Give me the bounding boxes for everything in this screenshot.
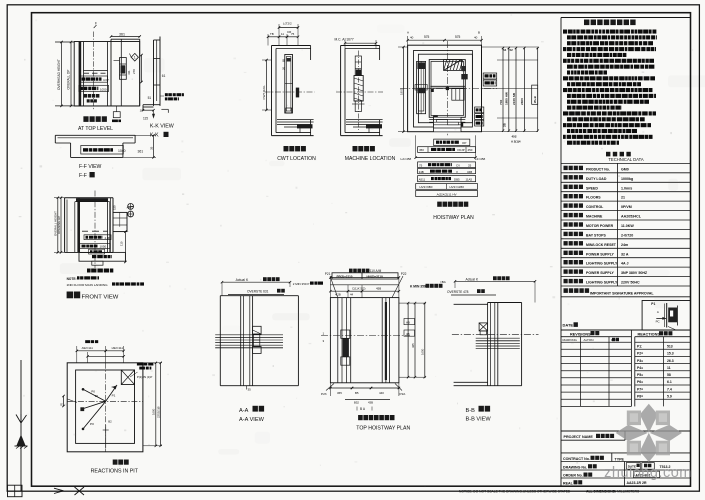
svg-text:0P/VM: 0P/VM: [621, 205, 632, 209]
svg-text:11: 11: [667, 366, 671, 370]
svg-text:TYPE: TYPE: [615, 457, 625, 461]
svg-text:V: V: [456, 170, 458, 174]
svg-text:575: 575: [424, 35, 430, 39]
svg-text:2600: 2600: [520, 98, 524, 105]
svg-text:ALTON: ALTON: [584, 338, 594, 342]
svg-text:AB: AB: [406, 320, 410, 324]
svg-text:1855: 1855: [399, 88, 403, 95]
corner registration box: [8, 485, 23, 497]
view K-K: [153, 40, 155, 106]
svg-text:3NP 380V 50HZ: 3NP 380V 50HZ: [621, 271, 648, 275]
svg-text:513: 513: [667, 345, 673, 349]
svg-text:BAY STOPS: BAY STOPS: [586, 233, 606, 237]
watermark logo: [616, 404, 682, 462]
svg-text:NOTICE: DO NOT SCALE THE DRAWI: NOTICE: DO NOT SCALE THE DRAWING.UNLESS …: [459, 489, 571, 493]
svg-text:FRONT VIEW: FRONT VIEW: [82, 294, 119, 300]
svg-text:445: 445: [411, 343, 415, 348]
svg-text:A 2(1)4: A 2(1)4: [511, 140, 521, 144]
svg-text:A511: A511: [419, 177, 426, 181]
svg-text:=BA: =BA: [440, 280, 446, 284]
svg-text:110: 110: [120, 241, 124, 246]
svg-text:CWT RAIL: CWT RAIL: [262, 85, 266, 100]
bottom X mark: [75, 487, 85, 495]
svg-text:4.0P: 4.0P: [103, 78, 109, 82]
svg-text:SPEED: SPEED: [586, 186, 598, 190]
svg-text:DATE: DATE: [563, 323, 574, 328]
svg-text:1: 1: [134, 56, 136, 60]
svg-text:270: 270: [132, 69, 136, 74]
svg-text:CONTRACT No.: CONTRACT No.: [563, 457, 590, 461]
svg-text:P7=: P7=: [637, 387, 643, 391]
svg-text:F-F VIEW: F-F VIEW: [79, 164, 102, 170]
svg-text:W+B: W+B: [533, 95, 537, 103]
svg-text:TB: TB: [270, 32, 274, 36]
svg-text:A: A: [407, 31, 409, 35]
svg-text:ALL DIMENSIONS: ALL DIMENSIONS: [586, 489, 616, 493]
svg-text:450: 450: [419, 148, 424, 152]
svg-text:10: 10: [140, 109, 144, 113]
svg-text:B52: B52: [354, 400, 359, 404]
svg-text:CV: CV: [456, 163, 460, 167]
svg-text:440: 440: [379, 391, 384, 395]
svg-text:575: 575: [455, 35, 461, 39]
svg-text:PRODUCT No.: PRODUCT No.: [586, 167, 610, 171]
svg-text:P22: P22: [401, 272, 407, 276]
svg-text:2252(1)B: 2252(1)B: [157, 406, 161, 418]
svg-text:11: 11: [281, 32, 284, 36]
svg-text:MIN/LOCK RESET: MIN/LOCK RESET: [586, 243, 617, 247]
technical data table: [606, 152, 631, 157]
svg-text:OVERHEAD HEIGHT: OVERHEAD HEIGHT: [57, 59, 61, 90]
svg-text:2-0/720: 2-0/720: [621, 233, 633, 237]
svg-text:B: B: [478, 31, 480, 35]
svg-text:51: 51: [148, 96, 152, 100]
svg-text:20: 20: [282, 67, 286, 70]
svg-text:2100 SB: 2100 SB: [512, 92, 516, 105]
svg-text:5.9: 5.9: [667, 394, 672, 398]
svg-text:44: 44: [350, 293, 354, 297]
svg-text:LIGHTING SUPPLY: LIGHTING SUPPLY: [586, 281, 618, 285]
svg-text:A: A: [657, 310, 659, 314]
svg-text:450: 450: [468, 148, 473, 152]
svg-text:HV2=11B0: HV2=11B0: [450, 185, 465, 189]
svg-text:LA=458: LA=458: [401, 157, 412, 161]
svg-text:35: 35: [150, 146, 154, 150]
svg-text:H92=111: H92=111: [112, 346, 124, 350]
svg-text:FDJP: FDJP: [458, 148, 465, 152]
svg-text:4B: 4B: [406, 332, 410, 336]
svg-text:IN MILLIMETERS: IN MILLIMETERS: [613, 489, 640, 493]
svg-text:45B: 45B: [376, 286, 381, 290]
svg-text:B5: B5: [355, 391, 359, 395]
svg-text:AA23-1R 2R: AA23-1R 2R: [627, 481, 648, 485]
svg-text:zhulong.com: zhulong.com: [604, 465, 692, 481]
svg-text:361: 361: [119, 33, 125, 37]
svg-text:REVISIONS: REVISIONS: [570, 332, 591, 336]
svg-text:25: 25: [468, 163, 472, 167]
svg-text:58: 58: [667, 373, 671, 377]
svg-text:K-K VIEW: K-K VIEW: [150, 124, 174, 130]
svg-text:K MIN 350: K MIN 350: [410, 285, 426, 289]
left coordinate axis line: [20, 360, 22, 491]
svg-text:M.C. A=1677: M.C. A=1677: [335, 38, 354, 42]
svg-text:740: 740: [499, 100, 503, 105]
pit detail sketch: [642, 301, 690, 331]
svg-text:15.3: 15.3: [667, 352, 674, 356]
svg-text:411: 411: [127, 70, 131, 75]
svg-text:MARKING: MARKING: [563, 338, 578, 342]
svg-text:P4=: P4=: [637, 366, 643, 370]
notes block: [584, 20, 636, 26]
svg-text:4.0P: 4.0P: [105, 236, 111, 240]
svg-text:75: 75: [419, 163, 423, 167]
svg-text:MACHINE: MACHINE: [586, 215, 603, 219]
svg-text:P23: P23: [321, 392, 327, 396]
svg-text:OPENING HP: OPENING HP: [57, 216, 61, 234]
svg-text:7.4: 7.4: [667, 387, 672, 391]
svg-text:Actual K: Actual K: [466, 277, 479, 281]
svg-text:IMPORTANT SIGNATURE APPROVAL: IMPORTANT SIGNATURE APPROVAL: [590, 292, 654, 296]
svg-text:DB5: DB5: [454, 177, 460, 181]
svg-text:AT TOP LEVEL: AT TOP LEVEL: [78, 126, 113, 132]
svg-text:1000kg: 1000kg: [621, 177, 633, 181]
svg-text:452: 452: [512, 135, 517, 139]
svg-text:P6=: P6=: [637, 380, 643, 384]
title block bottom: [561, 452, 691, 454]
svg-text:DUTY LOAD: DUTY LOAD: [586, 177, 607, 181]
right column container: [560, 18, 562, 487]
svg-text:P0: P0: [90, 422, 94, 426]
svg-text:4 2B: 4 2B: [335, 293, 341, 297]
bottom fold arrow: [54, 491, 64, 494]
view TOP HOISTWAY PLAN: [349, 269, 369, 273]
svg-text:P0: P0: [91, 389, 95, 393]
svg-text:CONTROL: CONTROL: [586, 205, 604, 209]
svg-text:MOTOR POWER: MOTOR POWER: [586, 224, 614, 228]
svg-text:TECHNICAL DATA: TECHNICAL DATA: [608, 157, 643, 162]
svg-text:75: 75: [291, 32, 295, 36]
svg-text:HV2=9B0: HV2=9B0: [420, 185, 433, 189]
svg-text:FLOORS: FLOORS: [586, 196, 601, 200]
svg-text:1.0m/s: 1.0m/s: [621, 186, 632, 190]
svg-text:NOTE:: NOTE:: [67, 277, 77, 281]
svg-text:35: 35: [248, 388, 252, 392]
svg-text:OVERALL DP: OVERALL DP: [67, 70, 71, 90]
svg-text:P1: P1: [112, 393, 116, 397]
svg-text:A(2)X(2)11 HV: A(2)X(2)11 HV: [437, 192, 458, 196]
svg-text:54: 54: [503, 48, 507, 52]
svg-text:LIGHTING SUPPLY: LIGHTING SUPPLY: [586, 262, 618, 266]
svg-text:115: 115: [143, 117, 148, 121]
svg-text:P1:: P1:: [637, 345, 642, 349]
svg-text:OVERSTE 478: OVERSTE 478: [447, 290, 469, 294]
svg-text:P8=: P8=: [637, 394, 643, 398]
svg-text:34B: 34B: [467, 170, 472, 174]
svg-text:61: 61: [162, 74, 166, 78]
svg-text:150: 150: [113, 205, 117, 210]
svg-text:MACHINE LOCATION: MACHINE LOCATION: [345, 156, 396, 162]
svg-text:70: 70: [60, 402, 64, 406]
svg-text:6.1: 6.1: [667, 380, 672, 384]
svg-text:OP: OP: [462, 141, 466, 145]
svg-text:43B: 43B: [368, 400, 373, 404]
svg-text:ORDER No.: ORDER No.: [563, 474, 583, 478]
svg-text:GM0: GM0: [621, 167, 629, 171]
svg-text:L2=458: L2=458: [475, 157, 486, 161]
svg-text:21: 21: [621, 196, 625, 200]
svg-text:2ND FLOOR MAIN LANDING: 2ND FLOOR MAIN LANDING: [67, 283, 109, 287]
svg-text:11.0KW: 11.0KW: [621, 224, 634, 228]
benchmark triangle: [16, 435, 25, 447]
svg-text:34B: 34B: [419, 170, 424, 174]
svg-text:361: 361: [138, 149, 144, 153]
svg-text:B2: B2: [108, 420, 112, 424]
svg-text:K-K: K-K: [150, 133, 159, 139]
svg-text:40: 40: [410, 36, 414, 40]
svg-text:P3=: P3=: [637, 359, 643, 363]
view CWT LOCATION: [279, 27, 298, 29]
view AT TOP LEVEL: [61, 42, 63, 106]
svg-text:PP(2)=2110: PP(2)=2110: [337, 275, 353, 279]
svg-text:A-A VIEW: A-A VIEW: [239, 417, 265, 423]
svg-text:1600: 1600: [152, 408, 156, 415]
svg-text:P21: P21: [325, 272, 331, 276]
svg-text:32 A: 32 A: [621, 252, 629, 256]
svg-text:P0: P0: [112, 385, 116, 389]
svg-text:REACTIONS: REACTIONS: [638, 333, 661, 337]
svg-text:365: 365: [337, 391, 342, 395]
svg-text:HOISTWAY PLAN: HOISTWAY PLAN: [433, 215, 474, 221]
view F-F: [55, 134, 135, 136]
svg-text:P2=: P2=: [637, 352, 643, 356]
svg-text:POWER SUPPLY: POWER SUPPLY: [586, 252, 615, 256]
svg-text:B-B: B-B: [466, 408, 476, 414]
svg-text:F: F: [95, 22, 97, 26]
svg-text:REAL: REAL: [563, 481, 574, 485]
svg-text:24m: 24m: [621, 243, 628, 247]
svg-text:POWER SUPPLY: POWER SUPPLY: [586, 271, 615, 275]
svg-text:Actual K: Actual K: [236, 278, 249, 282]
axis fork mark: [16, 415, 21, 424]
svg-text:1040: 1040: [118, 149, 126, 153]
svg-text:20: 20: [95, 394, 99, 398]
svg-text:52: 52: [510, 48, 514, 52]
svg-text:L(T2/2: L(T2/2: [283, 22, 292, 26]
signature row: [564, 288, 590, 293]
svg-text:P(1) IN (1)P: P(1) IN (1)P: [137, 375, 152, 379]
svg-text:85: 85: [282, 59, 286, 62]
svg-text:OVERSTE 631: OVERSTE 631: [247, 290, 269, 294]
svg-text:B-B VIEW: B-B VIEW: [466, 417, 492, 423]
svg-text:REACTIONS IN PIT: REACTIONS IN PIT: [91, 468, 139, 474]
svg-text:PC: PC: [656, 320, 660, 324]
svg-text:A92=111: A92=111: [82, 346, 94, 350]
svg-text:P2A: P2A: [400, 392, 407, 396]
svg-text:2 MIN 350 P: 2 MIN 350 P: [293, 282, 310, 286]
svg-text:B A: B A: [360, 407, 366, 411]
svg-text:F-F: F-F: [79, 173, 87, 179]
project name box: [561, 430, 691, 432]
svg-text:40: 40: [474, 36, 478, 40]
svg-text:HH(2)=2110: HH(2)=2110: [367, 275, 384, 279]
svg-text:AA20534CL: AA20534CL: [621, 215, 642, 219]
svg-text:11A5: 11A5: [466, 177, 473, 181]
svg-text:P5=: P5=: [637, 373, 643, 377]
svg-text:220V 50HC: 220V 50HC: [621, 281, 640, 285]
svg-text:1650: 1650: [421, 348, 425, 355]
svg-text:1050: 1050: [100, 88, 107, 92]
svg-text:4A J: 4A J: [621, 262, 628, 266]
svg-text:TOP HOISTWAY PLAN: TOP HOISTWAY PLAN: [356, 425, 410, 431]
svg-text:1855 HW: 1855 HW: [505, 92, 509, 105]
svg-text:C(1)X 5(2): C(1)X 5(2): [352, 286, 366, 290]
svg-text:A-A: A-A: [239, 408, 249, 414]
svg-text:DRAWING No.: DRAWING No.: [563, 465, 587, 469]
view FRONT VIEW: [57, 198, 59, 253]
svg-text:PROJECT NAME: PROJECT NAME: [564, 435, 594, 439]
svg-text:26.3: 26.3: [667, 359, 674, 363]
view REACTIONS IN PIT: [85, 340, 98, 343]
svg-text:1050: 1050: [100, 245, 107, 249]
